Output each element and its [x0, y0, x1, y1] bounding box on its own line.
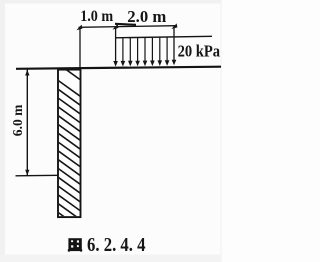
dim line thick smear segment — [115, 24, 136, 25]
load arrow 7 — [166, 37, 168, 61]
ground line — [16, 67, 221, 69]
extension line at wall right edge — [79, 28, 81, 69]
wall hatching — [56, 62, 82, 229]
svg-text:2.0 m: 2.0 m — [127, 7, 166, 26]
long load arrow (left edge of strip load) — [115, 27, 117, 62]
load arrow 1 — [122, 38, 124, 62]
load arrow 6 — [159, 37, 161, 61]
dim tick right — [171, 23, 177, 29]
scan border bottom band — [0, 255, 222, 262]
load arrow 4 — [144, 37, 146, 61]
svg-text:6.0 m: 6.0 m — [10, 104, 25, 136]
6.0 m dimension line — [26, 70, 28, 176]
6.0 m dim bottom arrowhead — [25, 170, 29, 176]
caption glyph 图 — [68, 238, 82, 251]
svg-text:1.0 m: 1.0 m — [80, 6, 113, 25]
load arrow 2 — [129, 38, 131, 62]
svg-text:6. 2. 4. 4: 6. 2. 4. 4 — [87, 234, 146, 256]
retaining wall outline — [58, 70, 81, 218]
load arrow 5 — [151, 37, 153, 61]
dim tick middle — [112, 24, 118, 30]
strip load top line — [115, 36, 212, 38]
scan border top band — [0, 0, 222, 4]
bottom leader line — [16, 174, 59, 177]
page background — [0, 0, 222, 262]
6.0 m dim top arrowhead — [25, 70, 29, 76]
long load arrow (right edge of strip load) — [173, 26, 175, 60]
svg-text:20 kPa: 20 kPa — [178, 42, 221, 61]
scan border right band — [221, 0, 223, 262]
dim tick at wall edge — [76, 25, 82, 31]
scan border left band — [0, 0, 5, 262]
dimension line (top) — [79, 26, 177, 28]
load arrow 3 — [137, 38, 139, 62]
